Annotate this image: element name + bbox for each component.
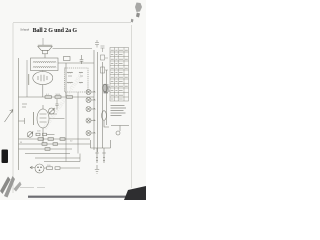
svg-text:Ball 2 G und 2a G: Ball 2 G und 2a G: [33, 28, 78, 34]
svg-text:Schaub: Schaub: [20, 27, 29, 31]
svg-text:W: W: [20, 142, 22, 144]
